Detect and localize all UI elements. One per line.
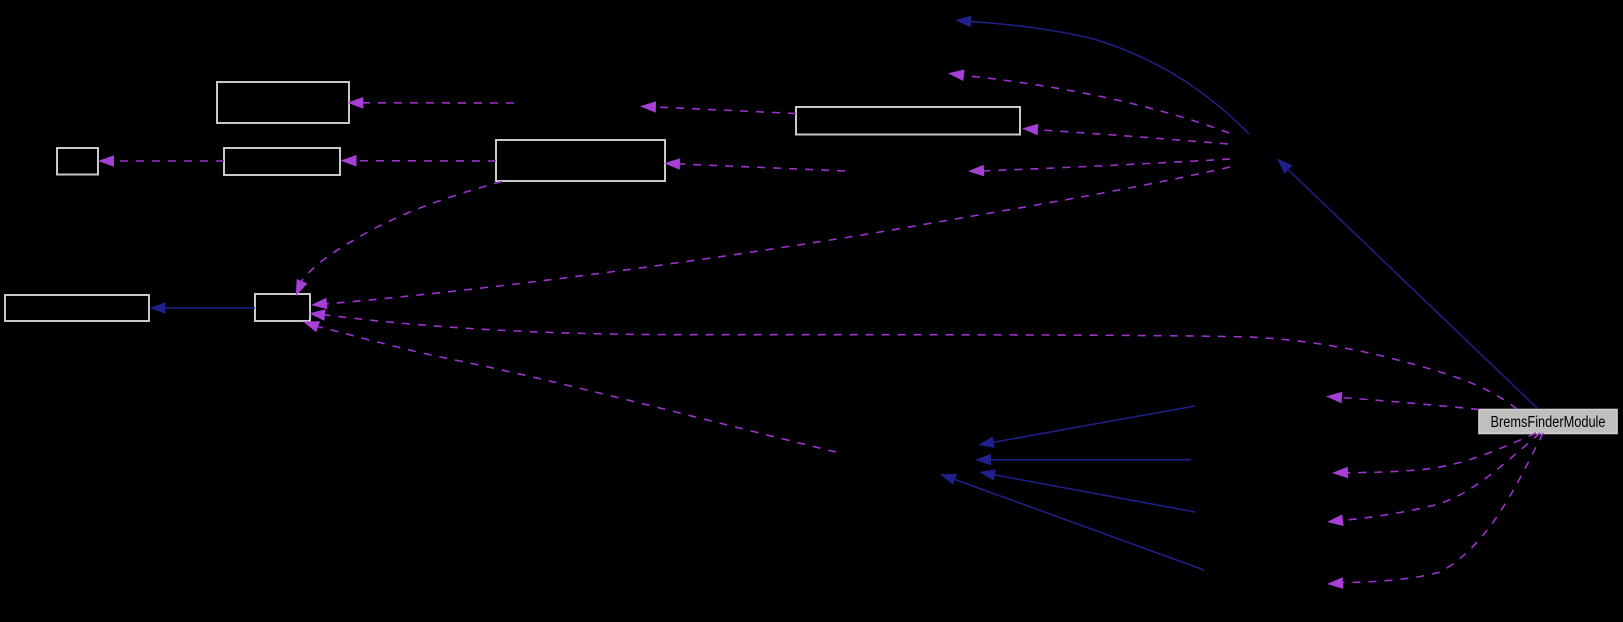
svg-text:BremsFinderModule: BremsFinderModule	[1491, 414, 1606, 431]
